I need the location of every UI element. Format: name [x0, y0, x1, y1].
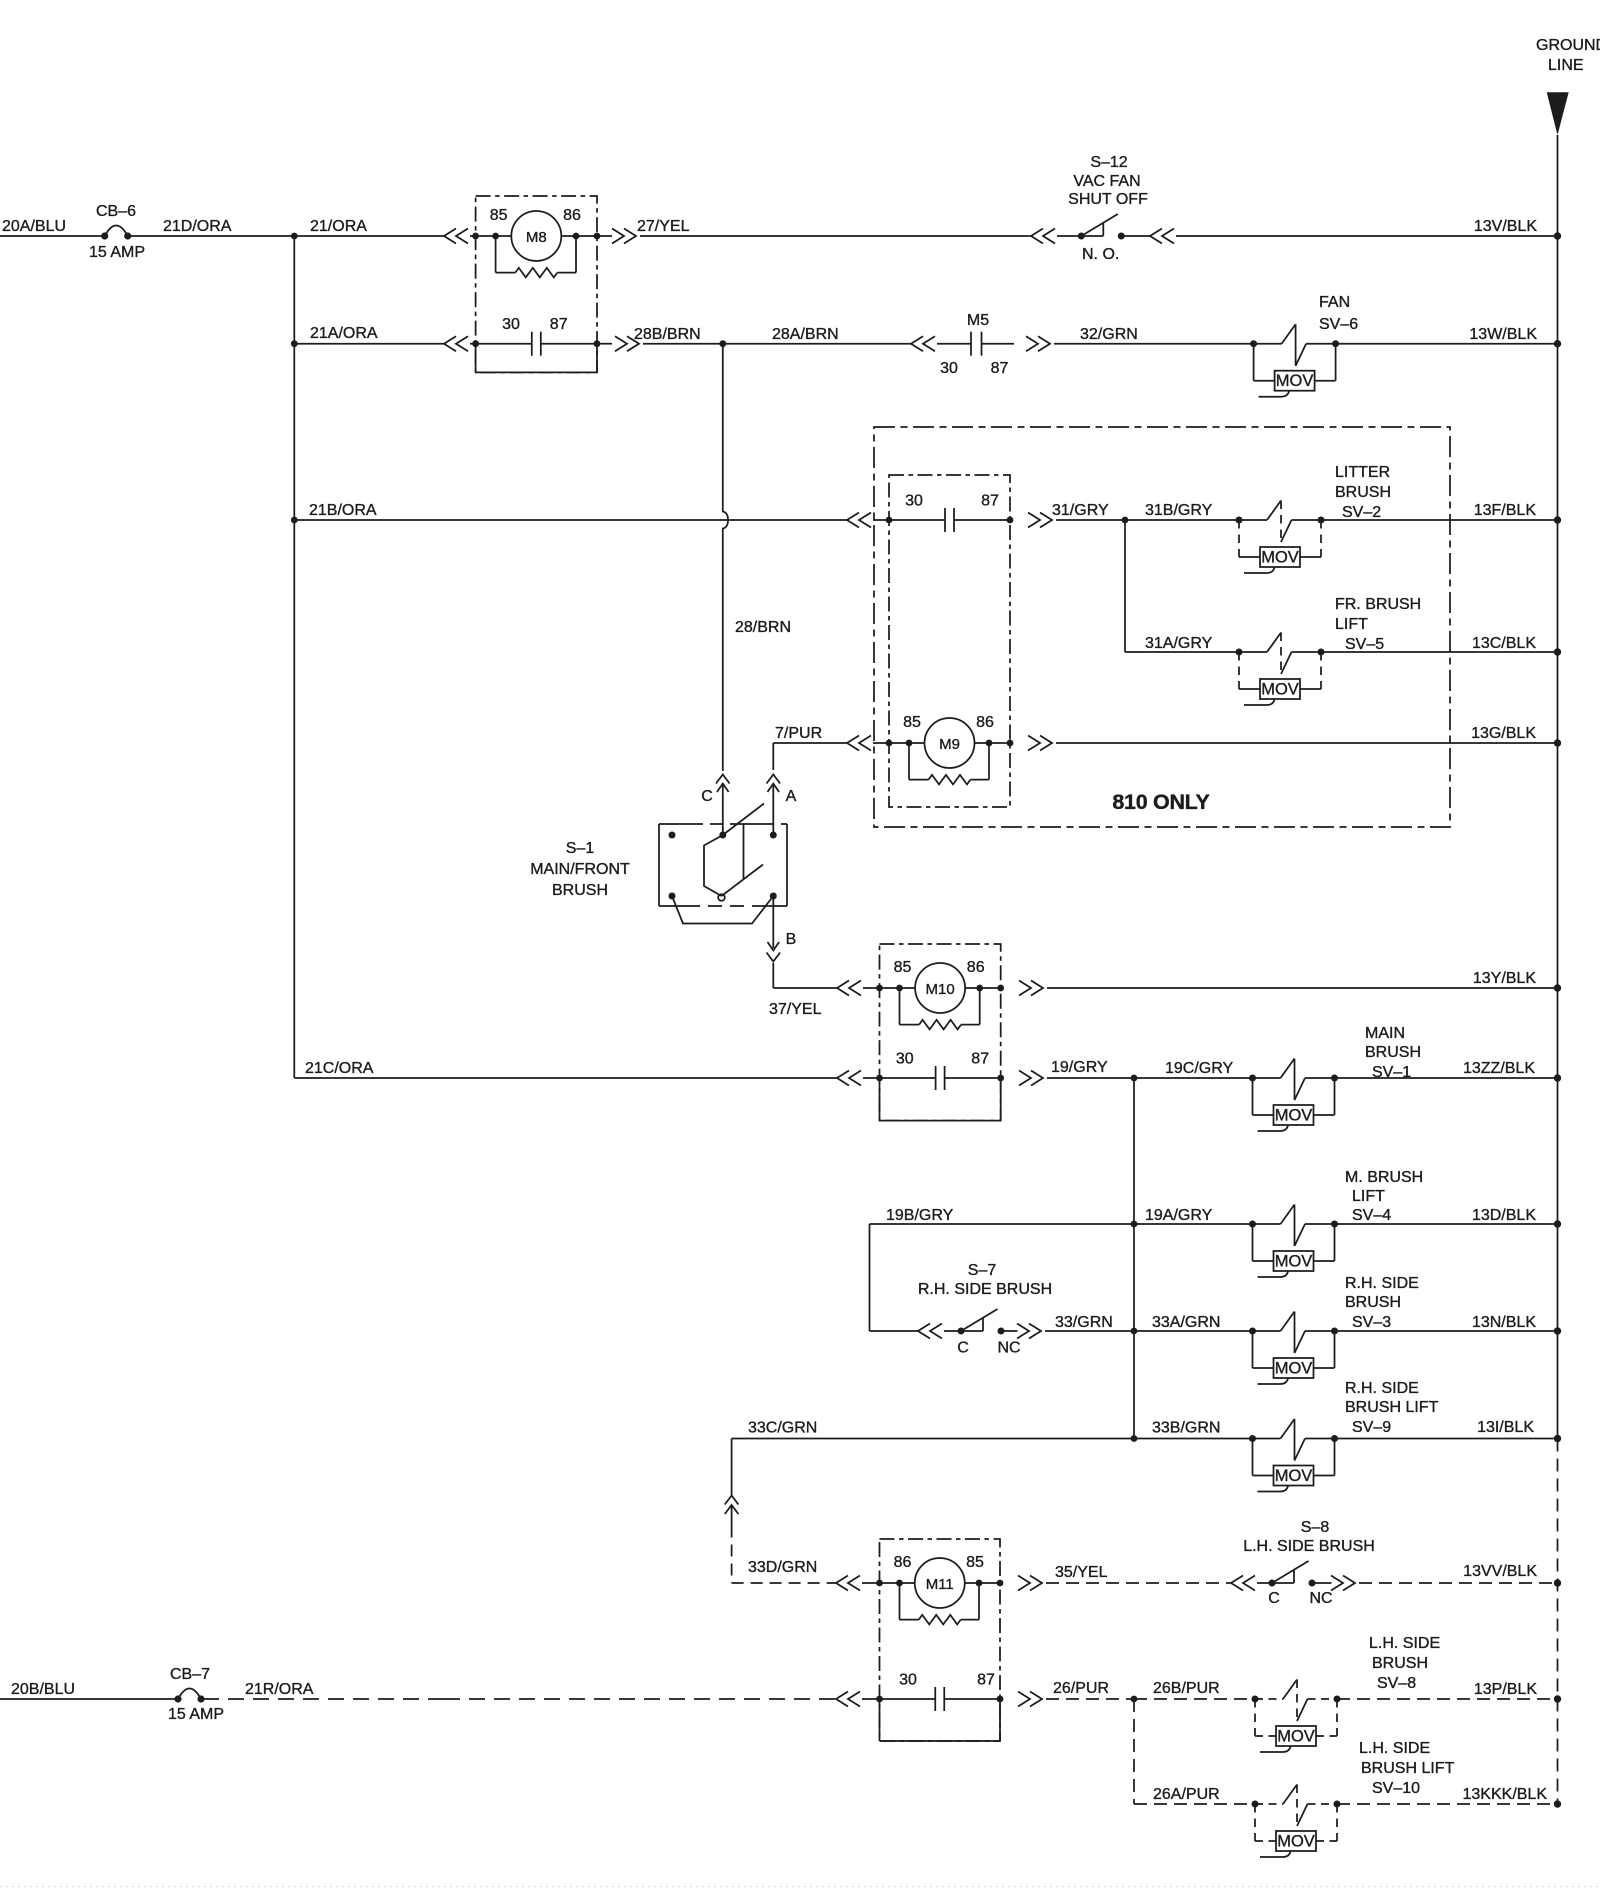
svg-text:31/GRY: 31/GRY — [1052, 502, 1109, 519]
svg-text:26B/PUR: 26B/PUR — [1153, 1680, 1220, 1697]
svg-text:26A/PUR: 26A/PUR — [1153, 1786, 1220, 1803]
svg-text:87: 87 — [991, 360, 1009, 377]
svg-text:S–1: S–1 — [566, 840, 595, 857]
svg-text:37/YEL: 37/YEL — [769, 1001, 822, 1018]
svg-text:13C/BLK: 13C/BLK — [1472, 635, 1536, 652]
svg-text:85: 85 — [490, 207, 508, 224]
svg-text:S–12: S–12 — [1090, 154, 1127, 171]
svg-text:13KKK/BLK: 13KKK/BLK — [1463, 1786, 1548, 1803]
svg-text:BRUSH LIFT: BRUSH LIFT — [1361, 1760, 1455, 1777]
svg-text:33C/GRN: 33C/GRN — [748, 1420, 817, 1437]
svg-text:15 AMP: 15 AMP — [168, 1706, 224, 1723]
svg-text:VAC FAN: VAC FAN — [1073, 173, 1140, 190]
svg-text:19C/GRY: 19C/GRY — [1165, 1060, 1234, 1077]
svg-text:28/BRN: 28/BRN — [735, 619, 791, 636]
svg-text:13VV/BLK: 13VV/BLK — [1463, 1563, 1537, 1580]
svg-text:SV–5: SV–5 — [1345, 636, 1384, 653]
svg-text:CB–7: CB–7 — [170, 1666, 210, 1683]
svg-text:FAN: FAN — [1319, 294, 1350, 311]
svg-text:13Y/BLK: 13Y/BLK — [1473, 970, 1536, 987]
svg-text:13W/BLK: 13W/BLK — [1469, 326, 1537, 343]
svg-text:R.H. SIDE: R.H. SIDE — [1345, 1380, 1419, 1397]
svg-text:LIFT: LIFT — [1335, 616, 1368, 633]
svg-text:86: 86 — [894, 1554, 912, 1571]
svg-text:C: C — [701, 788, 713, 805]
svg-text:BRUSH LIFT: BRUSH LIFT — [1345, 1399, 1439, 1416]
svg-text:32/GRN: 32/GRN — [1080, 326, 1138, 343]
svg-text:13G/BLK: 13G/BLK — [1471, 725, 1536, 742]
svg-text:SV–8: SV–8 — [1377, 1675, 1416, 1692]
svg-text:SV–10: SV–10 — [1372, 1780, 1420, 1797]
svg-text:NC: NC — [1309, 1590, 1332, 1607]
svg-text:31B/GRY: 31B/GRY — [1145, 502, 1213, 519]
svg-text:M9: M9 — [939, 736, 960, 753]
svg-text:MOV: MOV — [1261, 681, 1299, 699]
svg-text:86: 86 — [563, 207, 581, 224]
svg-text:BRUSH: BRUSH — [1365, 1044, 1421, 1061]
svg-text:CB–6: CB–6 — [96, 203, 136, 220]
svg-text:810 ONLY: 810 ONLY — [1112, 790, 1209, 814]
svg-text:35/YEL: 35/YEL — [1055, 1564, 1108, 1581]
svg-text:MAIN/FRONT: MAIN/FRONT — [530, 861, 630, 878]
svg-text:MOV: MOV — [1275, 1253, 1313, 1271]
svg-text:86: 86 — [967, 959, 985, 976]
svg-text:NC: NC — [997, 1340, 1020, 1357]
svg-text:30: 30 — [896, 1051, 914, 1068]
svg-text:27/YEL: 27/YEL — [637, 218, 690, 235]
svg-text:13I/BLK: 13I/BLK — [1477, 1419, 1534, 1436]
svg-text:A: A — [786, 788, 797, 805]
svg-text:MOV: MOV — [1275, 1107, 1313, 1125]
svg-text:86: 86 — [976, 714, 994, 731]
svg-text:21B/ORA: 21B/ORA — [309, 502, 377, 519]
svg-text:BRUSH: BRUSH — [1335, 484, 1391, 501]
svg-text:15 AMP: 15 AMP — [89, 244, 145, 261]
svg-text:33B/GRN: 33B/GRN — [1152, 1420, 1220, 1437]
svg-text:MAIN: MAIN — [1365, 1025, 1405, 1042]
svg-text:33D/GRN: 33D/GRN — [748, 1559, 817, 1576]
svg-text:R.H. SIDE BRUSH: R.H. SIDE BRUSH — [918, 1281, 1052, 1298]
svg-text:30: 30 — [905, 493, 923, 510]
svg-text:87: 87 — [981, 493, 999, 510]
svg-text:13V/BLK: 13V/BLK — [1474, 218, 1537, 235]
svg-text:M8: M8 — [526, 229, 547, 246]
svg-text:13N/BLK: 13N/BLK — [1472, 1314, 1536, 1331]
svg-text:M10: M10 — [926, 981, 955, 998]
svg-text:19A/GRY: 19A/GRY — [1145, 1207, 1213, 1224]
svg-text:SV–4: SV–4 — [1352, 1207, 1391, 1224]
svg-text:28A/BRN: 28A/BRN — [772, 326, 839, 343]
svg-text:S–7: S–7 — [968, 1262, 997, 1279]
svg-text:L.H. SIDE BRUSH: L.H. SIDE BRUSH — [1243, 1538, 1375, 1555]
svg-text:26/PUR: 26/PUR — [1053, 1680, 1109, 1697]
svg-text:LINE: LINE — [1548, 57, 1584, 74]
svg-text:C: C — [957, 1340, 969, 1357]
svg-text:C: C — [1268, 1590, 1280, 1607]
svg-text:SV–3: SV–3 — [1352, 1314, 1391, 1331]
svg-text:SV–6: SV–6 — [1319, 316, 1358, 333]
svg-text:N. O.: N. O. — [1082, 246, 1119, 263]
svg-text:33A/GRN: 33A/GRN — [1152, 1314, 1220, 1331]
svg-text:SV–9: SV–9 — [1352, 1419, 1391, 1436]
svg-text:19/GRY: 19/GRY — [1051, 1059, 1108, 1076]
svg-text:87: 87 — [977, 1672, 995, 1689]
svg-text:87: 87 — [971, 1051, 989, 1068]
svg-text:SV–2: SV–2 — [1342, 504, 1381, 521]
svg-text:19B/GRY: 19B/GRY — [886, 1207, 954, 1224]
svg-text:21D/ORA: 21D/ORA — [163, 218, 232, 235]
svg-text:MOV: MOV — [1276, 372, 1314, 390]
svg-text:7/PUR: 7/PUR — [775, 725, 822, 742]
svg-text:BRUSH: BRUSH — [1372, 1655, 1428, 1672]
svg-text:R.H. SIDE: R.H. SIDE — [1345, 1275, 1419, 1292]
svg-text:30: 30 — [502, 316, 520, 333]
svg-text:30: 30 — [940, 360, 958, 377]
svg-text:85: 85 — [903, 714, 921, 731]
svg-text:85: 85 — [894, 959, 912, 976]
svg-text:20A/BLU: 20A/BLU — [2, 218, 66, 235]
svg-text:L.H. SIDE: L.H. SIDE — [1369, 1635, 1440, 1652]
svg-text:MOV: MOV — [1275, 1360, 1313, 1378]
svg-text:GROUND: GROUND — [1536, 37, 1600, 54]
svg-text:13P/BLK: 13P/BLK — [1474, 1681, 1537, 1698]
svg-text:LITTER: LITTER — [1335, 464, 1390, 481]
svg-text:13ZZ/BLK: 13ZZ/BLK — [1463, 1060, 1535, 1077]
svg-text:20B/BLU: 20B/BLU — [11, 1681, 75, 1698]
svg-text:M11: M11 — [926, 1576, 954, 1593]
svg-text:21A/ORA: 21A/ORA — [310, 325, 378, 342]
svg-text:S–8: S–8 — [1301, 1519, 1330, 1536]
svg-text:MOV: MOV — [1275, 1467, 1313, 1485]
svg-text:31A/GRY: 31A/GRY — [1145, 635, 1213, 652]
svg-text:L.H. SIDE: L.H. SIDE — [1359, 1740, 1430, 1757]
svg-text:85: 85 — [966, 1554, 984, 1571]
svg-text:MOV: MOV — [1277, 1833, 1315, 1851]
svg-text:SHUT OFF: SHUT OFF — [1068, 191, 1148, 208]
svg-text:33/GRN: 33/GRN — [1055, 1314, 1113, 1331]
svg-text:30: 30 — [899, 1672, 917, 1689]
svg-text:MOV: MOV — [1277, 1728, 1315, 1746]
svg-text:B: B — [786, 931, 797, 948]
svg-text:SV–1: SV–1 — [1372, 1064, 1411, 1081]
svg-text:13D/BLK: 13D/BLK — [1472, 1207, 1536, 1224]
svg-text:BRUSH: BRUSH — [552, 882, 608, 899]
svg-text:M. BRUSH: M. BRUSH — [1345, 1169, 1423, 1186]
svg-text:BRUSH: BRUSH — [1345, 1294, 1401, 1311]
svg-text:FR. BRUSH: FR. BRUSH — [1335, 596, 1421, 613]
svg-text:28B/BRN: 28B/BRN — [634, 326, 701, 343]
svg-text:21/ORA: 21/ORA — [310, 218, 367, 235]
svg-text:MOV: MOV — [1261, 549, 1299, 567]
svg-text:21C/ORA: 21C/ORA — [305, 1060, 374, 1077]
svg-text:LIFT: LIFT — [1352, 1188, 1385, 1205]
svg-text:87: 87 — [550, 316, 568, 333]
svg-text:21R/ORA: 21R/ORA — [245, 1681, 314, 1698]
svg-text:M5: M5 — [967, 312, 989, 329]
svg-text:13F/BLK: 13F/BLK — [1474, 502, 1537, 519]
